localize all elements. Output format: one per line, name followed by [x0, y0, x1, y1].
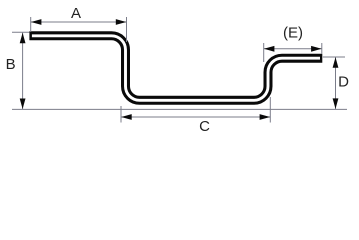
dim A arrow right	[116, 19, 127, 25]
tube outline (handlebar profile)	[29, 36, 322, 101]
dim C ext line right	[269, 97, 271, 123]
dim E ext line left	[263, 43, 265, 62]
dim B line	[22, 33, 24, 109]
dim C ext line left	[120, 106, 122, 123]
svg-text:C: C	[199, 118, 210, 135]
dim E line	[264, 48, 322, 50]
baseline (bottom reference line)	[12, 108, 347, 110]
dim B arrow top	[20, 33, 26, 44]
dim D line	[335, 57, 337, 109]
dim B ext line top	[12, 31, 30, 33]
dim A ext line right	[126, 17, 128, 42]
dim D arrow top	[333, 57, 339, 67]
svg-text:D: D	[338, 73, 349, 90]
dim E ext line right	[321, 43, 323, 54]
dim E arrow left	[264, 46, 275, 52]
dim C arrow right	[260, 114, 271, 120]
dim A line	[31, 21, 127, 23]
svg-text:A: A	[71, 5, 81, 22]
svg-text:B: B	[6, 56, 16, 73]
dim A arrow left	[31, 19, 42, 25]
dim D arrow bottom	[333, 98, 339, 109]
dim A ext line left	[30, 17, 32, 32]
tube white core	[32, 36, 320, 101]
svg-text:(E): (E)	[283, 24, 303, 41]
dim C arrow left	[121, 114, 132, 120]
dim E arrow right	[311, 46, 322, 52]
dim C line	[121, 116, 270, 118]
dim B arrow bottom	[20, 99, 26, 110]
dim D ext line top	[323, 56, 345, 58]
